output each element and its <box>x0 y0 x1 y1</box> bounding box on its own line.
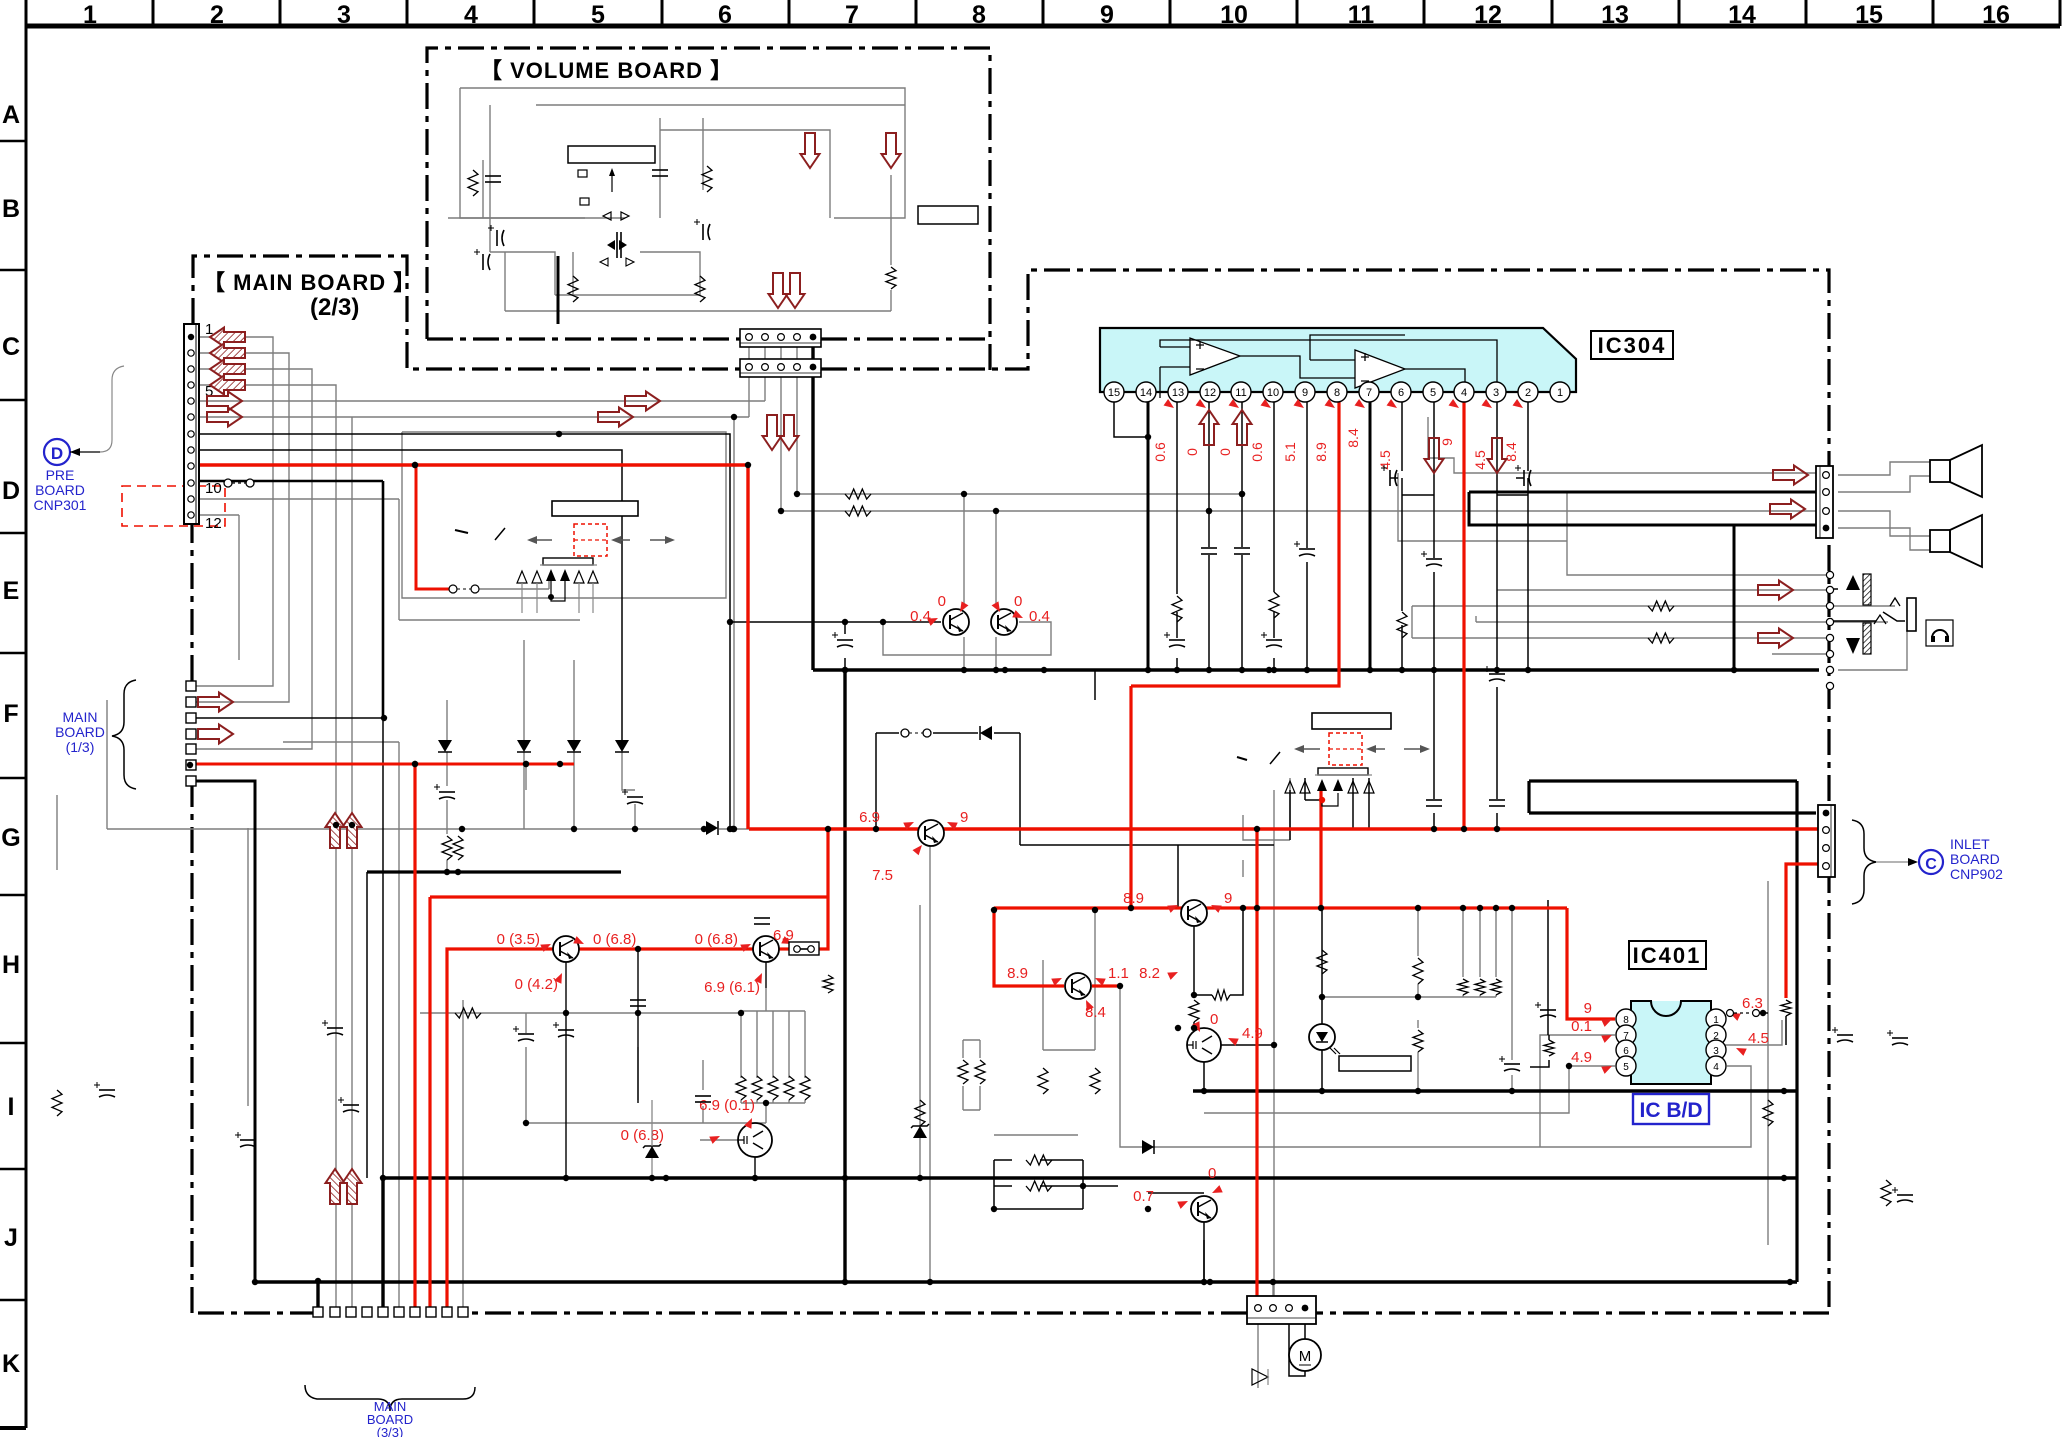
transistor Q (6.9/9/7.5) <box>918 820 944 846</box>
wire <box>979 1040 981 1058</box>
wire <box>702 118 704 190</box>
junction <box>1431 826 1437 832</box>
svg-text:IC B/D: IC B/D <box>1640 1099 1703 1122</box>
svg-text:G: G <box>1 824 20 852</box>
wire <box>844 622 846 634</box>
transistor Q (8.9/9) <box>1181 900 1207 926</box>
capacitor <box>558 1029 574 1031</box>
capacitor <box>1299 548 1315 550</box>
junction <box>523 761 529 767</box>
wire <box>780 347 782 361</box>
svg-text:8.9: 8.9 <box>1123 890 1144 907</box>
wire <box>247 828 249 1106</box>
junction <box>1415 1088 1421 1094</box>
wire <box>1204 1066 1615 1113</box>
svg-text:14: 14 <box>1728 1 1756 29</box>
wire <box>765 988 767 1011</box>
wire <box>460 88 585 218</box>
junction <box>649 1175 655 1181</box>
wire <box>573 660 575 740</box>
junction <box>825 826 831 832</box>
junction <box>333 822 339 828</box>
capacitor <box>1489 799 1505 801</box>
resistor <box>1026 1181 1052 1191</box>
connector CNP301 left strip <box>184 324 199 524</box>
wire <box>1433 572 1435 799</box>
wire <box>482 160 484 218</box>
svg-text:(2/3): (2/3) <box>310 294 359 321</box>
wire <box>1321 908 1323 1024</box>
wire power (red) <box>779 947 790 950</box>
junction <box>563 1175 569 1181</box>
wire <box>525 764 527 790</box>
capacitor <box>1389 470 1391 486</box>
junction <box>1206 508 1212 514</box>
junction <box>1781 1088 1787 1094</box>
svg-text:7: 7 <box>845 1 859 29</box>
svg-text:0.4: 0.4 <box>910 608 931 625</box>
junction <box>412 761 418 767</box>
svg-text:1: 1 <box>83 1 97 29</box>
wire <box>366 872 368 1178</box>
resistor <box>1881 1180 1891 1206</box>
svg-text:1: 1 <box>1557 387 1563 399</box>
svg-text:0.6: 0.6 <box>1152 442 1168 462</box>
wire <box>1368 778 1370 828</box>
svg-text:5: 5 <box>591 1 605 29</box>
wire <box>1427 417 1429 458</box>
wire <box>573 752 575 829</box>
svg-text:0: 0 <box>1208 1165 1216 1182</box>
speaker L <box>1930 460 1950 482</box>
resistor <box>958 1060 968 1084</box>
wire <box>382 718 384 1178</box>
wire <box>196 369 312 749</box>
svg-text:4.9: 4.9 <box>1571 1049 1592 1066</box>
signal arrow <box>1200 410 1219 445</box>
wire <box>772 1011 774 1078</box>
wire <box>1242 860 1244 877</box>
wire <box>199 434 730 829</box>
wire bus <box>382 1176 1797 1179</box>
wire <box>1497 589 1830 591</box>
svg-text:IC401: IC401 <box>1633 943 1702 968</box>
wire <box>933 732 978 734</box>
capacitor <box>99 1089 115 1091</box>
junction <box>1415 905 1421 911</box>
svg-text:8: 8 <box>1334 387 1340 399</box>
wire <box>1527 495 1529 670</box>
wire bus <box>813 668 1819 671</box>
transistor Q (0(6.8)/6.9) <box>753 936 779 962</box>
wire <box>963 1039 980 1041</box>
speaker R <box>1930 530 1950 552</box>
left pad column MAIN BOARD 1/3 <box>186 681 196 691</box>
capacitor <box>695 1095 711 1097</box>
wire power (red) <box>1319 787 1322 908</box>
capacitor <box>1426 558 1442 560</box>
wire <box>1495 908 1497 977</box>
junction <box>523 1120 529 1126</box>
wire power (red) <box>1255 829 1258 1305</box>
junction <box>1494 667 1500 673</box>
junction <box>459 826 465 832</box>
wire <box>876 732 899 734</box>
wire <box>536 104 905 106</box>
wire <box>740 1011 742 1078</box>
wire power (red) <box>199 465 748 829</box>
wire <box>1511 908 1513 1060</box>
wire <box>962 1040 964 1058</box>
VOLUME BOARD outline <box>427 48 990 371</box>
junction <box>1318 905 1324 911</box>
wire <box>446 860 448 872</box>
wire <box>994 732 1020 734</box>
junction <box>1041 667 1047 673</box>
wire <box>702 1060 704 1090</box>
junction <box>635 1010 641 1016</box>
wire <box>446 752 448 786</box>
svg-text:C: C <box>2 333 20 361</box>
wire <box>994 1134 1078 1136</box>
wire <box>1475 616 1477 622</box>
mechanism 2 <box>1312 713 1391 729</box>
svg-text:6.3: 6.3 <box>1742 995 1763 1012</box>
capacitor <box>1234 547 1250 549</box>
zener diode ZD1 <box>645 1146 659 1158</box>
svg-text:6: 6 <box>1398 387 1404 399</box>
wire <box>1479 995 1481 997</box>
signal arrow <box>1770 500 1805 519</box>
mech2 red dotted box <box>1329 733 1362 765</box>
junction <box>1787 1279 1793 1285</box>
volume board connector strips <box>740 329 821 347</box>
label rect near LED <box>1339 1056 1411 1071</box>
junction <box>961 667 967 673</box>
junction <box>1145 667 1151 673</box>
wire <box>1713 1020 1782 1045</box>
wire power (red) <box>1092 984 1120 987</box>
wire <box>634 804 636 829</box>
wire <box>622 752 635 790</box>
wire <box>1177 845 1179 908</box>
junction <box>745 462 751 468</box>
components <box>468 170 478 196</box>
wire power (red) <box>818 829 828 949</box>
wire bus <box>843 670 846 1282</box>
wire <box>1772 653 1830 655</box>
resistor <box>1648 601 1674 611</box>
junction <box>1760 1010 1766 1016</box>
junction <box>1271 1042 1277 1048</box>
signal arrow <box>1758 629 1793 648</box>
junction <box>1174 667 1180 673</box>
svg-text:D: D <box>2 477 20 505</box>
wire <box>525 1047 527 1123</box>
wire <box>890 175 892 265</box>
svg-text:3: 3 <box>337 1 351 29</box>
svg-text:J: J <box>4 1224 18 1252</box>
wire power (red) <box>413 764 416 1307</box>
wire <box>199 385 336 1307</box>
wire power (red) <box>994 906 1567 909</box>
svg-text:12: 12 <box>1204 387 1216 399</box>
wire <box>1412 637 1830 639</box>
wire <box>1496 813 1498 828</box>
capacitor <box>518 1033 534 1035</box>
svg-text:4: 4 <box>464 1 478 29</box>
junction <box>961 491 967 497</box>
capacitor <box>1523 470 1525 486</box>
wire <box>1020 844 1274 846</box>
svg-text:0.6: 0.6 <box>1249 442 1265 462</box>
wire <box>1402 494 1434 496</box>
junction <box>1191 992 1197 998</box>
junction <box>1493 905 1499 911</box>
resistor <box>1026 1155 1052 1165</box>
junction <box>1271 667 1277 673</box>
svg-text:0 (4.2): 0 (4.2) <box>515 976 558 993</box>
capacitor <box>439 791 455 793</box>
wire <box>460 88 905 218</box>
capacitor <box>240 1139 256 1141</box>
svg-text:D: D <box>51 444 63 463</box>
svg-text:9: 9 <box>1224 890 1232 907</box>
wire power (red) <box>1129 686 1132 908</box>
wire <box>199 400 765 402</box>
wire <box>238 515 240 660</box>
junction <box>1494 826 1500 832</box>
open triangle symbol bottom <box>1252 1369 1268 1385</box>
junction <box>1399 667 1405 673</box>
wire <box>1417 984 1419 997</box>
resistor <box>1458 979 1468 995</box>
wire <box>1530 1060 1549 1067</box>
resistor <box>1413 958 1423 984</box>
wire <box>1289 790 1291 840</box>
junction <box>1270 1279 1276 1285</box>
svg-text:I: I <box>8 1093 15 1121</box>
wire <box>1417 1020 1419 1028</box>
wire <box>1417 1052 1419 1091</box>
wire <box>490 252 555 295</box>
junction <box>993 508 999 514</box>
junction <box>412 462 418 468</box>
wire <box>199 416 749 418</box>
signal arrow <box>625 392 660 411</box>
svg-text:6: 6 <box>718 1 732 29</box>
junction <box>380 1175 386 1181</box>
signal arrow <box>1488 438 1507 473</box>
svg-text:4.5: 4.5 <box>1748 1030 1769 1047</box>
junction <box>731 414 737 420</box>
wire <box>741 1010 805 1012</box>
wire <box>1306 402 1308 548</box>
wire <box>804 1100 806 1103</box>
wire <box>788 1100 790 1103</box>
signal arrow <box>1773 466 1808 485</box>
junction <box>1509 905 1515 911</box>
junction <box>880 619 886 625</box>
wire <box>1230 908 1243 995</box>
junction <box>1415 994 1421 1000</box>
red power wires <box>190 402 1832 1313</box>
wire <box>199 498 399 500</box>
svg-text:0.4: 0.4 <box>1029 608 1050 625</box>
capacitor <box>1540 1009 1556 1011</box>
capacitor <box>1266 639 1282 641</box>
junction <box>1239 667 1245 673</box>
svg-text:9: 9 <box>960 809 968 826</box>
wire <box>1496 402 1498 673</box>
signal arrow <box>207 392 242 411</box>
wire <box>1398 473 1567 541</box>
wire <box>963 494 965 607</box>
wire <box>1203 1222 1205 1282</box>
svg-text:MAIN: MAIN <box>63 709 98 725</box>
wire <box>796 377 798 494</box>
wire <box>572 252 574 295</box>
signal arrow <box>210 376 245 395</box>
junction <box>738 1010 744 1016</box>
wire <box>1713 1012 1722 1014</box>
junction <box>252 1279 258 1285</box>
switch S and diode row G <box>901 729 909 737</box>
wire <box>1401 625 1403 670</box>
diode D row I <box>1142 1140 1154 1154</box>
svg-text:9: 9 <box>1302 387 1308 399</box>
wire <box>1243 815 1290 840</box>
wire <box>1193 1022 1195 1031</box>
wire <box>107 828 462 830</box>
wire bus <box>1147 402 1150 670</box>
svg-text:10: 10 <box>1220 1 1248 29</box>
wire <box>733 417 735 829</box>
wire <box>489 105 491 252</box>
wire <box>1838 528 1930 550</box>
junction <box>1319 994 1325 1000</box>
wire bus <box>382 481 385 718</box>
wire <box>994 1185 1012 1187</box>
wire <box>1830 588 1838 590</box>
wire <box>448 217 625 219</box>
junction <box>632 826 638 832</box>
wire bus <box>1527 781 1530 813</box>
wire <box>788 1011 790 1078</box>
wire <box>1401 495 1403 611</box>
wire <box>741 1102 805 1104</box>
wire <box>929 841 931 1282</box>
wire <box>748 377 750 417</box>
signal arrow <box>198 693 233 712</box>
wire <box>1208 402 1210 547</box>
wire <box>1479 908 1481 977</box>
transistor Q (0.4/0) pair <box>943 609 969 635</box>
wire <box>1257 1322 1259 1388</box>
junction <box>444 869 450 875</box>
wire bus <box>1369 402 1372 670</box>
svg-text:13: 13 <box>1172 387 1184 399</box>
op-amp IC304 <box>1100 328 1576 392</box>
svg-text:4: 4 <box>1461 387 1467 399</box>
wire <box>1527 478 1529 495</box>
wire <box>190 717 383 719</box>
wire bus <box>811 377 814 670</box>
junction <box>842 667 848 673</box>
wire <box>844 658 846 670</box>
capacitor <box>630 999 646 1001</box>
wire <box>963 1109 980 1111</box>
junction <box>1092 907 1098 913</box>
wire <box>196 353 289 702</box>
svg-text:C: C <box>1925 856 1937 873</box>
capacitor <box>1897 1194 1913 1196</box>
svg-text:K: K <box>2 1350 20 1378</box>
wire <box>1273 612 1275 638</box>
junction <box>993 667 999 673</box>
resistor <box>752 1076 762 1100</box>
signal arrow <box>598 408 633 427</box>
wire <box>1401 478 1403 495</box>
wire <box>1540 1035 1615 1147</box>
junction <box>1781 1175 1787 1181</box>
wire <box>1322 996 1496 998</box>
svg-text:4: 4 <box>1713 1062 1719 1073</box>
junction <box>1240 905 1246 911</box>
wire <box>772 1100 774 1103</box>
wire power (red) <box>1462 402 1465 829</box>
wire <box>1040 1185 1083 1187</box>
wire <box>740 1100 742 1103</box>
wire <box>199 450 622 740</box>
resistor <box>1172 596 1182 622</box>
junction <box>1266 667 1272 673</box>
wire <box>1412 605 1895 607</box>
junction <box>730 826 736 832</box>
junction <box>1239 491 1245 497</box>
wire <box>523 640 525 740</box>
wire <box>1120 986 1751 1147</box>
IC401 chip <box>1631 1001 1711 1084</box>
wire <box>1241 555 1243 670</box>
wire <box>756 1100 758 1103</box>
svg-text:2: 2 <box>1525 387 1531 399</box>
junction <box>1002 667 1008 673</box>
wire <box>1547 900 1549 1035</box>
wire <box>1083 1185 1118 1187</box>
wire <box>1511 1075 1513 1091</box>
wire <box>1208 555 1210 670</box>
junction <box>1566 1063 1572 1069</box>
signal arrow <box>1233 410 1252 445</box>
signal arrow <box>326 813 345 848</box>
wire <box>994 1208 1083 1210</box>
junction <box>794 491 800 497</box>
wire bus <box>1733 525 1736 670</box>
svg-text:CNP902: CNP902 <box>1950 866 2003 882</box>
zener diode ZD2 <box>913 1126 927 1138</box>
resistor <box>1269 592 1279 618</box>
wire power (red) <box>994 908 1064 986</box>
resistor <box>975 1060 985 1084</box>
svg-text:H: H <box>2 951 20 979</box>
junction <box>991 907 997 913</box>
wire <box>1190 1208 1204 1210</box>
wire <box>548 580 550 589</box>
resistor <box>453 836 463 860</box>
junction <box>763 1100 769 1106</box>
wire <box>420 1012 741 1014</box>
